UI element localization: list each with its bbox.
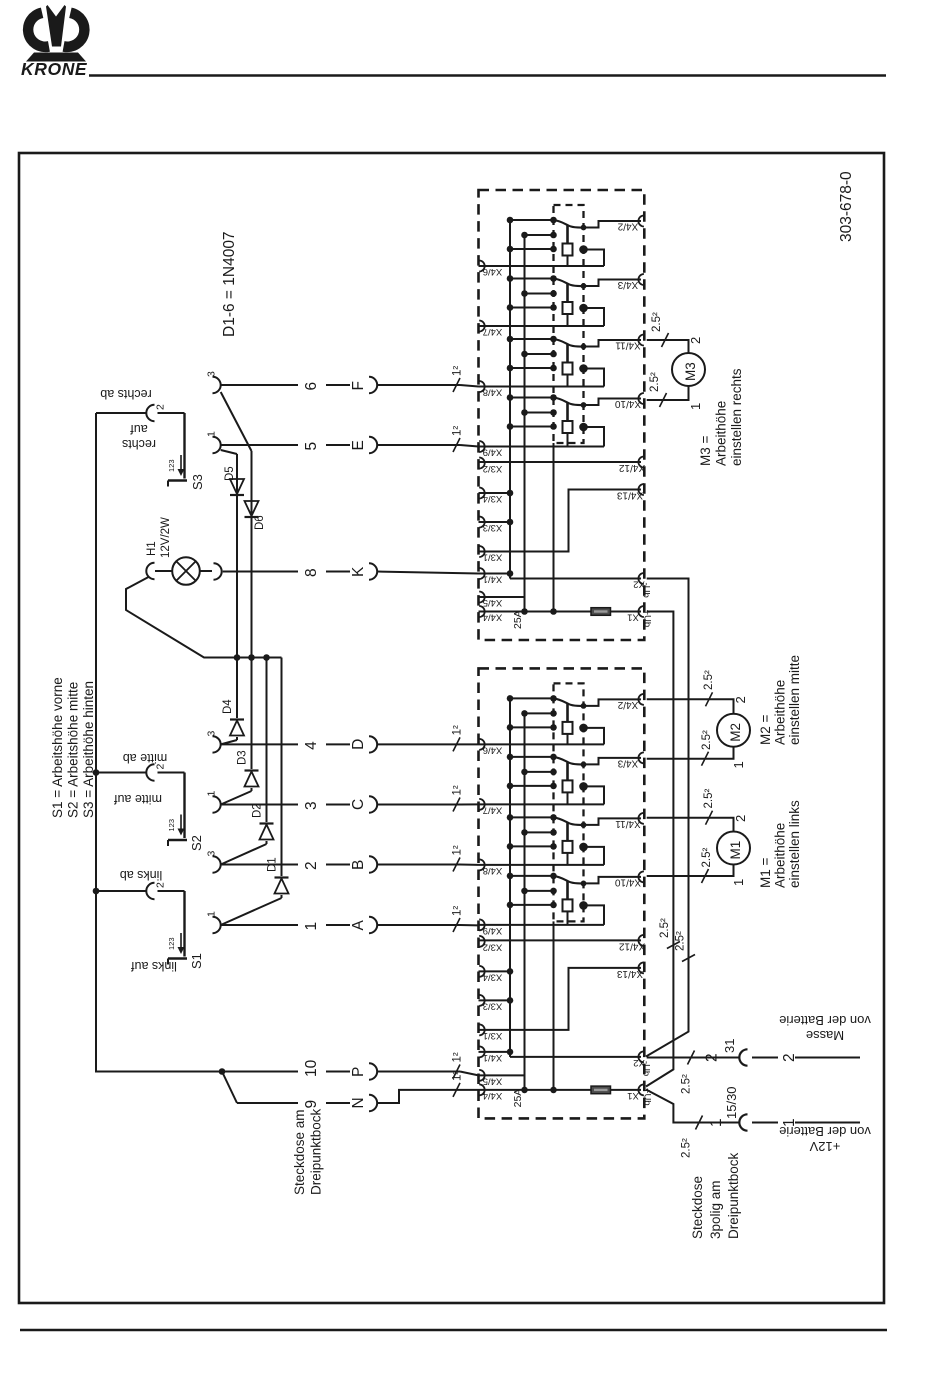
relay K2 (X4/3) xyxy=(479,274,644,326)
connector contact A xyxy=(369,917,377,933)
svg-text:2: 2 xyxy=(688,337,703,344)
svg-text:25A: 25A xyxy=(512,1089,524,1108)
svg-text:-Ub: -Ub xyxy=(641,583,652,598)
diode D3 xyxy=(237,750,259,786)
pin X4/6 xyxy=(479,261,485,272)
bus rail 2 xyxy=(524,235,526,612)
svg-text:X1: X1 xyxy=(627,1090,639,1101)
D2 branch xyxy=(266,658,268,823)
switch S2 xyxy=(146,764,204,852)
svg-text:X4/13: X4/13 xyxy=(616,968,643,979)
svg-text:X4/12: X4/12 xyxy=(618,940,645,951)
diode D6 xyxy=(245,501,267,530)
svg-text:X3/2: X3/2 xyxy=(483,463,503,474)
wire X4/11 to M1 pin2 xyxy=(647,818,734,832)
module outer dashed box xyxy=(479,190,645,640)
svg-text:2.5²: 2.5² xyxy=(675,931,687,951)
svg-text:8: 8 xyxy=(303,568,320,577)
svg-text:S2: S2 xyxy=(189,835,204,851)
svg-text:Steckdose: Steckdose xyxy=(690,1176,705,1239)
svg-text:1²: 1² xyxy=(452,725,464,735)
svg-text:X3/4: X3/4 xyxy=(483,972,503,983)
connector contact F xyxy=(369,377,377,393)
bus rail 3 (lower) xyxy=(553,443,555,612)
svg-text:2: 2 xyxy=(155,404,167,410)
svg-text:X4/9: X4/9 xyxy=(483,925,503,936)
pin X4/5 stub xyxy=(479,596,525,598)
motor M1 xyxy=(717,832,750,865)
svg-text:M2 =: M2 = xyxy=(758,714,773,745)
gauge mark 1mm2 xyxy=(453,918,460,932)
left supply bus wire xyxy=(96,413,222,1072)
pin X3/3 xyxy=(479,517,485,528)
wire row 6/F xyxy=(213,377,221,393)
svg-text:X4/2: X4/2 xyxy=(617,221,638,232)
svg-text:2.5²: 2.5² xyxy=(659,918,671,938)
svg-text:2.5²: 2.5² xyxy=(649,372,661,392)
svg-text:1²: 1² xyxy=(452,1052,464,1062)
relay module A (rechts) xyxy=(479,190,653,640)
gauge mark 1mm2 xyxy=(453,737,460,751)
X4/12 row xyxy=(479,461,642,463)
svg-text:X4/6: X4/6 xyxy=(483,745,503,756)
svg-text:5: 5 xyxy=(303,442,320,451)
svg-text:1: 1 xyxy=(206,911,218,917)
wire row 3/C xyxy=(213,796,221,812)
svg-text:X4/7: X4/7 xyxy=(483,326,503,337)
svg-text:X4/4: X4/4 xyxy=(483,1090,503,1101)
connector contact B xyxy=(369,856,377,872)
svg-text:X4/10: X4/10 xyxy=(614,398,641,409)
wire S2 contact2 feed xyxy=(96,772,147,774)
svg-text:1²: 1² xyxy=(452,366,464,376)
svg-text:X3/2: X3/2 xyxy=(483,942,503,953)
svg-text:X4/13: X4/13 xyxy=(616,490,643,501)
gauge mark 1mm2 xyxy=(453,858,460,872)
svg-text:123: 123 xyxy=(167,819,176,832)
svg-text:X4/9: X4/9 xyxy=(483,447,503,458)
lamp H1 12V/2W xyxy=(146,517,222,585)
svg-text:S1 = Arbeitshöhe vorne: S1 = Arbeitshöhe vorne xyxy=(50,677,65,818)
svg-text:123: 123 xyxy=(167,459,176,472)
pin X4/5 stub xyxy=(479,1074,525,1076)
svg-text:D5: D5 xyxy=(224,466,236,481)
svg-text:3: 3 xyxy=(206,731,218,737)
svg-text:F: F xyxy=(350,381,367,390)
svg-text:H1: H1 xyxy=(146,541,158,556)
svg-text:Dreipunktbock: Dreipunktbock xyxy=(309,1108,324,1195)
pin X4/7 xyxy=(479,799,485,810)
svg-text:2.5²: 2.5² xyxy=(681,1138,693,1158)
svg-text:1²: 1² xyxy=(452,426,464,436)
svg-text:X4/5: X4/5 xyxy=(483,1076,503,1087)
pin X4/8 xyxy=(479,859,485,870)
svg-text:3: 3 xyxy=(206,851,218,857)
D5 branch xyxy=(221,450,237,454)
relay K3 (X4/11) xyxy=(479,813,644,865)
module inner dashed box xyxy=(554,683,584,921)
svg-text:B: B xyxy=(350,860,367,870)
svg-text:10: 10 xyxy=(303,1059,320,1077)
relay K1 (X4/2) xyxy=(479,694,644,745)
svg-text:D2: D2 xyxy=(252,803,264,818)
connector contact C xyxy=(369,796,377,812)
svg-text:links ab: links ab xyxy=(120,868,162,882)
svg-text:303-678-0: 303-678-0 xyxy=(838,171,855,242)
svg-text:D4: D4 xyxy=(222,699,234,714)
svg-text:1: 1 xyxy=(708,1118,725,1127)
-Ub drop from module A xyxy=(646,579,689,1057)
motor M3 xyxy=(672,353,705,386)
svg-text:1: 1 xyxy=(206,431,218,437)
svg-text:1: 1 xyxy=(731,761,746,768)
25A fuse row (X1 +Ub) xyxy=(479,611,592,613)
svg-text:123: 123 xyxy=(167,937,176,950)
svg-text:12V/2W: 12V/2W xyxy=(160,517,172,558)
svg-text:A: A xyxy=(350,920,367,931)
svg-text:X3/3: X3/3 xyxy=(483,522,503,533)
pin X4/9 xyxy=(479,919,485,930)
X2 -Ub row xyxy=(479,573,511,575)
svg-text:2.5²: 2.5² xyxy=(703,670,715,690)
svg-text:1²: 1² xyxy=(452,1071,464,1081)
pin X4/4 xyxy=(479,606,485,617)
svg-text:2.5²: 2.5² xyxy=(701,730,713,750)
svg-text:X3/1: X3/1 xyxy=(483,1030,503,1041)
relay K4 (X4/10) xyxy=(479,393,644,447)
svg-text:X4/2: X4/2 xyxy=(617,699,638,710)
svg-text:X4/5: X4/5 xyxy=(483,597,503,608)
svg-text:1: 1 xyxy=(206,791,218,797)
wire X4/2 to M2 pin2 xyxy=(647,699,734,713)
relay K3 (X4/11) xyxy=(479,335,644,387)
wire S1 contact2 feed xyxy=(96,890,147,892)
pin X4/7 xyxy=(479,321,485,332)
pin X4/5 xyxy=(479,592,485,603)
svg-text:Arbeithöhe: Arbeithöhe xyxy=(773,823,788,888)
svg-text:2.5²: 2.5² xyxy=(701,848,713,868)
D3 branch xyxy=(251,658,253,770)
pin X4/5 xyxy=(479,1070,485,1081)
svg-text:Arbeithöhe: Arbeithöhe xyxy=(714,401,729,466)
pin X3/4 xyxy=(479,966,485,977)
svg-text:X3/3: X3/3 xyxy=(483,1001,503,1012)
pin X4/9 xyxy=(479,441,485,452)
diode D5 xyxy=(224,466,244,495)
svg-text:D1-6 = 1N4007: D1-6 = 1N4007 xyxy=(221,231,238,337)
svg-text:M3 =: M3 = xyxy=(698,435,713,466)
svg-text:X3/4: X3/4 xyxy=(483,493,503,504)
svg-text:X3/1: X3/1 xyxy=(483,552,503,563)
svg-text:links auf: links auf xyxy=(131,959,177,973)
D1 branch xyxy=(281,658,283,877)
X4/12 row xyxy=(479,939,642,941)
relay module B (links/mitte) xyxy=(479,668,653,1118)
svg-text:9: 9 xyxy=(303,1100,320,1109)
Masse (31) row xyxy=(647,1057,740,1059)
svg-text:D: D xyxy=(350,739,367,750)
bus rail 1 xyxy=(509,220,511,574)
border frame xyxy=(19,153,884,1303)
gauge mark 1mm2 xyxy=(453,378,460,392)
svg-text:M3: M3 xyxy=(683,362,698,381)
svg-text:X4/4: X4/4 xyxy=(483,612,503,623)
svg-text:X4/12: X4/12 xyxy=(618,462,645,473)
connector contact E xyxy=(369,437,377,453)
+12V (15/30) row xyxy=(646,1090,740,1123)
+Ub drop from module A xyxy=(646,612,673,1087)
connector contact K xyxy=(369,563,377,579)
25A fuse row (X1 +Ub) xyxy=(479,1089,592,1091)
svg-text:3: 3 xyxy=(303,801,320,810)
wire S3 contact2 feed xyxy=(96,412,147,414)
svg-text:1²: 1² xyxy=(452,906,464,916)
svg-text:S3: S3 xyxy=(190,474,205,490)
pin X3/2 xyxy=(479,458,485,469)
S2 bar xyxy=(183,773,185,839)
svg-text:X4/11: X4/11 xyxy=(615,340,641,351)
svg-text:1²: 1² xyxy=(452,845,464,855)
pin X3/3 xyxy=(479,995,485,1006)
wire row 2/B xyxy=(213,856,221,872)
svg-text:X4/6: X4/6 xyxy=(483,266,503,277)
bus rail 1 xyxy=(509,698,511,1052)
X4/13 row xyxy=(479,968,642,1030)
connector contact N xyxy=(369,1095,377,1111)
connector contact D xyxy=(369,736,377,752)
connector contact 31 xyxy=(739,1049,747,1065)
svg-text:2: 2 xyxy=(704,1053,721,1062)
svg-text:6: 6 xyxy=(303,382,320,391)
svg-text:2: 2 xyxy=(303,861,320,870)
gauge mark 1mm2 xyxy=(453,438,460,452)
svg-text:1: 1 xyxy=(688,403,703,410)
svg-text:rechts ab: rechts ab xyxy=(100,387,151,401)
svg-text:3: 3 xyxy=(206,371,218,377)
pin X4/8 xyxy=(479,381,485,392)
svg-text:3polig am: 3polig am xyxy=(708,1180,723,1239)
svg-text:KRONE: KRONE xyxy=(21,59,88,79)
pin X3/1 xyxy=(479,546,485,557)
svg-text:1: 1 xyxy=(731,879,746,886)
svg-text:X4/11: X4/11 xyxy=(615,818,641,829)
diode D1 xyxy=(267,857,289,893)
svg-text:mitte auf: mitte auf xyxy=(114,792,162,806)
wire X4/10 to M3 pin1 xyxy=(647,386,689,400)
svg-text:M1: M1 xyxy=(728,841,743,860)
svg-text:D3: D3 xyxy=(237,750,249,765)
svg-text:D6: D6 xyxy=(254,515,266,530)
svg-text:C: C xyxy=(350,799,367,810)
S1 bar xyxy=(183,891,185,957)
wire X4/11 to M3 pin2 xyxy=(647,340,689,353)
svg-text:15/30: 15/30 xyxy=(724,1086,739,1119)
pin X3/4 xyxy=(479,488,485,499)
diode D4 xyxy=(222,699,244,736)
svg-text:Dreipunktbock: Dreipunktbock xyxy=(726,1152,741,1239)
header rule xyxy=(89,74,886,77)
svg-text:einstellen mitte: einstellen mitte xyxy=(787,655,802,745)
diode bus junctions xyxy=(234,654,241,661)
svg-text:2.5²: 2.5² xyxy=(703,789,715,809)
footer rule xyxy=(20,1329,887,1331)
svg-text:M2: M2 xyxy=(728,723,743,742)
wire row 9/N xyxy=(222,1072,237,1104)
svg-text:S1: S1 xyxy=(189,953,204,969)
pin X4/4 xyxy=(479,1084,485,1095)
svg-text:2.5²: 2.5² xyxy=(651,312,663,332)
svg-text:mitte ab: mitte ab xyxy=(123,751,168,765)
pin X4/1 xyxy=(479,568,485,579)
switch S1 xyxy=(146,882,204,969)
svg-text:X4/8: X4/8 xyxy=(483,865,503,876)
switch S3 xyxy=(146,404,205,490)
svg-text:1: 1 xyxy=(303,922,320,931)
relay K2 (X4/3) xyxy=(479,752,644,804)
svg-text:X4/1: X4/1 xyxy=(483,574,503,585)
svg-text:2: 2 xyxy=(733,815,748,822)
svg-text:einstellen rechts: einstellen rechts xyxy=(729,368,744,466)
module inner dashed box xyxy=(554,205,584,443)
connector contact 15/30 xyxy=(739,1114,747,1130)
bus rail 2 xyxy=(524,713,526,1090)
svg-text:S2 = Arbeitshöhe mitte: S2 = Arbeitshöhe mitte xyxy=(66,682,81,818)
wire row 4/D xyxy=(213,736,221,752)
svg-text:X4/8: X4/8 xyxy=(483,387,503,398)
pin X3/2 xyxy=(479,936,485,947)
module outer dashed box xyxy=(479,668,645,1118)
wire row 1/A xyxy=(213,917,221,933)
svg-text:P: P xyxy=(350,1067,367,1077)
svg-text:2: 2 xyxy=(733,696,748,703)
X2 -Ub row xyxy=(479,1051,511,1053)
svg-text:K: K xyxy=(350,566,367,577)
svg-text:einstellen links: einstellen links xyxy=(787,800,802,888)
lamp feed wire xyxy=(126,577,282,658)
wire X4/3 to M2 pin1 xyxy=(647,747,734,759)
gauge mark 1mm2 xyxy=(453,798,460,812)
svg-text:X1: X1 xyxy=(627,612,639,623)
svg-text:Steckdose am: Steckdose am xyxy=(292,1109,307,1195)
wire X4/10 to M1 pin1 xyxy=(647,865,734,877)
svg-text:X4/7: X4/7 xyxy=(483,805,503,816)
D6 branch xyxy=(221,392,252,451)
X4/13 row xyxy=(479,490,642,552)
svg-text:N: N xyxy=(350,1097,367,1108)
svg-text:S3 = Arbeithöhe hinten: S3 = Arbeithöhe hinten xyxy=(81,681,96,818)
motor M2 xyxy=(717,714,750,747)
S3 bar xyxy=(183,413,185,479)
svg-text:X4/10: X4/10 xyxy=(614,876,641,887)
wire row 5/E xyxy=(213,437,221,453)
KRONE logo xyxy=(21,5,90,79)
svg-text:M1 =: M1 = xyxy=(758,857,773,888)
svg-text:X4/3: X4/3 xyxy=(617,757,638,768)
diode D2 xyxy=(252,803,274,839)
svg-text:4: 4 xyxy=(303,741,320,750)
relay K1 (X4/2) xyxy=(479,216,644,267)
svg-text:31: 31 xyxy=(722,1039,737,1053)
svg-text:Arbeithöhe: Arbeithöhe xyxy=(773,680,788,745)
pin X4/6 xyxy=(479,739,485,750)
wire row 10/P xyxy=(219,1068,226,1075)
D4 branch xyxy=(236,658,238,719)
svg-text:X4/3: X4/3 xyxy=(617,279,638,290)
svg-text:-Ub: -Ub xyxy=(641,1061,652,1076)
wire row 8/K xyxy=(223,571,298,573)
bus rail 3 (lower) xyxy=(553,921,555,1090)
svg-text:25A: 25A xyxy=(512,610,524,629)
svg-text:2.5²: 2.5² xyxy=(681,1074,693,1094)
svg-text:X4/1: X4/1 xyxy=(483,1052,503,1063)
svg-text:E: E xyxy=(350,440,367,450)
relay K4 (X4/10) xyxy=(479,871,644,925)
svg-text:D1: D1 xyxy=(267,857,279,872)
pin X3/1 xyxy=(479,1024,485,1035)
svg-text:1²: 1² xyxy=(452,785,464,795)
connector contact P xyxy=(369,1063,377,1079)
pin X4/1 xyxy=(479,1046,485,1057)
